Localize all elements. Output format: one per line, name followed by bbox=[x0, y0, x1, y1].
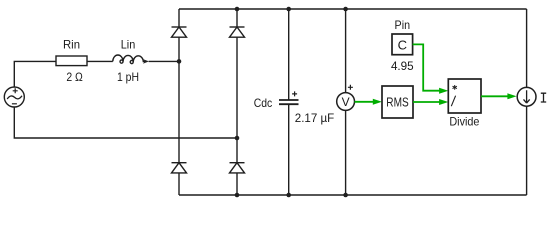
wire: inductor to bridge bbox=[149, 60, 179, 62]
capacitor Cdc plates bbox=[279, 100, 299, 104]
capacitor branch wire bottom bbox=[288, 104, 290, 195]
diode D1 top-left bbox=[172, 27, 187, 37]
svg-text:4.95: 4.95 bbox=[391, 59, 414, 73]
svg-text:1 pH: 1 pH bbox=[117, 70, 139, 84]
resistor Rin bbox=[56, 56, 87, 66]
constant block Pin (C) bbox=[392, 34, 413, 55]
voltmeter plus bbox=[348, 85, 353, 90]
diode D2 bottom-left bbox=[172, 163, 187, 173]
AC source V1 bbox=[4, 87, 24, 107]
svg-text:Cdc: Cdc bbox=[254, 96, 273, 110]
svg-text:RMS: RMS bbox=[386, 95, 408, 109]
svg-text:C: C bbox=[398, 37, 407, 52]
svg-text:2 Ω: 2 Ω bbox=[66, 70, 83, 84]
svg-text:V: V bbox=[342, 95, 350, 109]
RMS block bbox=[382, 86, 413, 118]
divide block U1 bbox=[448, 79, 481, 113]
current source branch wire bbox=[526, 9, 528, 195]
svg-text:Lin: Lin bbox=[121, 38, 136, 52]
green wire Divide to I bbox=[481, 95, 508, 97]
top rail bbox=[179, 8, 527, 10]
wire: source top to resistor bbox=[14, 61, 56, 87]
wire: source bottom to right branch bbox=[14, 107, 237, 138]
junction node dots bbox=[177, 59, 182, 64]
voltmeter branch wire bbox=[345, 9, 347, 195]
right bridge branch wire bbox=[236, 9, 238, 195]
wire: resistor to inductor bbox=[87, 60, 113, 62]
left bridge branch wire bbox=[178, 9, 180, 195]
inductor Lin bbox=[113, 55, 144, 64]
current source I bbox=[517, 87, 536, 106]
green wire V to RMS bbox=[355, 101, 375, 103]
svg-text:2.17 µF: 2.17 µF bbox=[295, 111, 335, 125]
green wire RMS to Divide bbox=[413, 101, 440, 103]
green wire C to Divide bbox=[413, 44, 440, 90]
svg-text:Divide: Divide bbox=[449, 114, 479, 128]
capacitor polarity plus bbox=[292, 91, 297, 96]
bottom rail bbox=[179, 194, 527, 196]
voltmeter V bbox=[337, 93, 355, 111]
capacitor Cdc branch wire top bbox=[288, 9, 290, 100]
inductor current arrow bbox=[143, 60, 147, 62]
diode D3 top-right bbox=[230, 27, 245, 37]
diode D4 bottom-right bbox=[230, 163, 245, 173]
label I bbox=[541, 93, 546, 102]
svg-text:Pin: Pin bbox=[395, 18, 411, 32]
svg-text:Rin: Rin bbox=[63, 38, 80, 52]
